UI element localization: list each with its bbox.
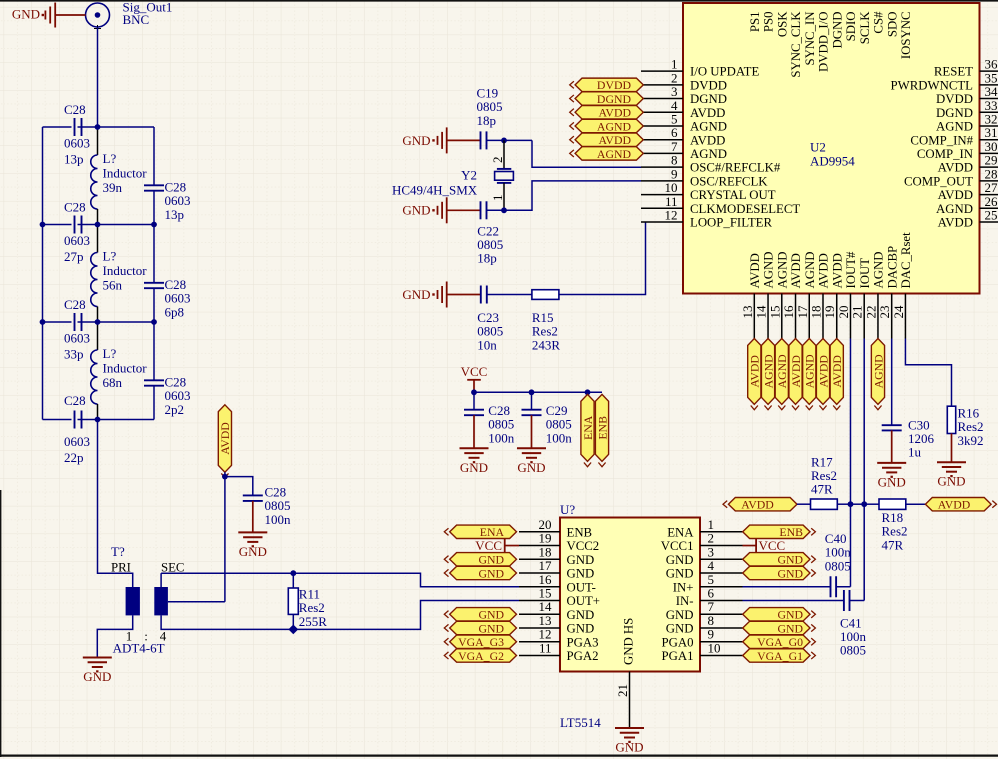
svg-text:OSC#/REFCLK#: OSC#/REFCLK# [690, 161, 781, 175]
svg-text:AGND: AGND [690, 147, 727, 161]
capacitor C28 2p2 shunt [144, 380, 164, 385]
label C41 values [840, 615, 867, 657]
ground GND at C30 [877, 463, 906, 490]
svg-text:AVDD: AVDD [789, 355, 803, 388]
port ENB net [743, 525, 816, 539]
svg-text:GND: GND [615, 740, 643, 755]
svg-text:47R: 47R [811, 482, 833, 497]
svg-text:IN-: IN- [676, 594, 694, 608]
svg-text:LT5514: LT5514 [560, 715, 601, 730]
capacitor C28 27p series [75, 216, 82, 234]
pin 21 GND HS [615, 672, 630, 729]
wire filter to transformer primary [98, 420, 133, 588]
wire C22 to crystal [487, 209, 505, 211]
pin 5 AGND [641, 111, 727, 133]
node VCC junctions [471, 389, 590, 395]
ground GND at C28 VCC [460, 448, 489, 475]
port AVDD net [570, 106, 644, 120]
svg-text:L?: L? [103, 249, 117, 264]
pin 16 AVDD [781, 253, 803, 338]
wire crystal pin1 to OSC/REFCLK [504, 181, 641, 210]
svg-text:3k92: 3k92 [958, 433, 984, 448]
label C28 values [488, 403, 515, 445]
pin 13 GND [519, 613, 594, 636]
svg-text:22: 22 [863, 306, 878, 319]
pin 33 DGND [936, 98, 998, 120]
pin 8 OSC#/REFCLK# [641, 153, 781, 175]
svg-text:CS#: CS# [872, 11, 886, 34]
pin 14 AGND [754, 252, 776, 339]
svg-text:SDIO: SDIO [844, 12, 858, 42]
svg-text:C28: C28 [64, 102, 86, 117]
label C28 values [165, 375, 191, 418]
svg-text:IOSYNC: IOSYNC [899, 12, 913, 60]
port ENB enable [595, 394, 609, 466]
label C28 values [165, 180, 191, 223]
wire OUT- net [293, 573, 519, 587]
svg-text:DGND: DGND [830, 12, 844, 49]
pin 7 AGND [641, 139, 727, 161]
svg-text:DACBP: DACBP [885, 246, 899, 289]
svg-text:39n: 39n [103, 180, 123, 195]
svg-text:100n: 100n [488, 430, 515, 445]
power VCC at pin 19 [475, 538, 519, 553]
pin 2 VCC1 [661, 531, 743, 554]
svg-text:0805: 0805 [825, 558, 851, 573]
ground GND at R16 [937, 462, 966, 489]
capacitor C28 13p series [75, 118, 82, 136]
svg-text:0603: 0603 [165, 291, 191, 306]
port GND net [743, 608, 816, 622]
port AGND net [871, 339, 885, 410]
svg-text:0603: 0603 [64, 136, 90, 151]
node AVDD branch junction [222, 474, 228, 480]
wire C23 to R15 [487, 294, 532, 296]
label C40 values [825, 531, 852, 573]
svg-text:AGND: AGND [936, 120, 973, 134]
svg-text:GND: GND [666, 622, 694, 636]
svg-text:0805: 0805 [840, 643, 866, 658]
port GND net [444, 566, 516, 580]
svg-text:AVDD: AVDD [938, 161, 973, 175]
svg-text:SYNC_CLK: SYNC_CLK [789, 11, 803, 78]
svg-text:20: 20 [836, 306, 851, 319]
pin 19 VCC2 [519, 531, 599, 554]
svg-text:GND: GND [777, 608, 803, 622]
port DVDD net [570, 78, 644, 92]
svg-text:255R: 255R [299, 614, 328, 629]
svg-text:Inductor: Inductor [103, 166, 148, 181]
svg-text:AGND: AGND [803, 252, 817, 289]
node crystal pin2 junction [501, 138, 507, 144]
svg-text:0603: 0603 [64, 331, 90, 346]
port AVDD at R18 [925, 498, 996, 512]
pin 17 GND [519, 558, 594, 581]
svg-text:CRYSTAL OUT: CRYSTAL OUT [690, 188, 776, 202]
pin 7 GND [666, 599, 743, 622]
svg-text:16: 16 [781, 305, 796, 319]
wire IOUT# net [849, 339, 851, 587]
wire IN- to C41 [743, 600, 844, 602]
wire secondary center tap [168, 601, 225, 603]
wire row 4 [43, 419, 155, 421]
wire row 2 [43, 224, 155, 226]
label L? 68n values [103, 346, 148, 390]
svg-text:1: 1 [490, 195, 505, 202]
svg-text:AGND: AGND [775, 354, 789, 389]
wire primary to ground [97, 615, 132, 657]
pin 35 PWRDWNCTL [891, 70, 998, 92]
svg-text:0603: 0603 [64, 434, 90, 449]
svg-text:AGND: AGND [775, 252, 789, 289]
node row4 junction [95, 417, 101, 423]
svg-text:0603: 0603 [165, 388, 191, 403]
inductor L? 68n [91, 322, 98, 420]
ground GND at transformer [83, 658, 112, 685]
wire right rail of filter [153, 127, 155, 420]
pin 23 DACBP [877, 246, 899, 339]
pin 3 GND [666, 544, 743, 567]
svg-text:13: 13 [539, 613, 552, 628]
label C28 values [265, 485, 292, 528]
label R18 values [882, 510, 908, 552]
pin 13 AVDD [740, 253, 762, 338]
svg-text:DVDD: DVDD [597, 78, 632, 92]
port AGND net [570, 147, 644, 161]
svg-text:AGND: AGND [936, 202, 973, 216]
port DGND net [570, 92, 644, 106]
pin 16 OUT- [519, 572, 596, 595]
svg-text:VGA_G3: VGA_G3 [458, 635, 504, 649]
pin 20 ENB [519, 517, 592, 540]
resistor R17 [811, 499, 838, 509]
svg-text:18: 18 [809, 306, 824, 319]
label C29 values [546, 403, 573, 445]
svg-text:Inductor: Inductor [103, 361, 148, 376]
svg-text:VGA_G1: VGA_G1 [757, 649, 803, 663]
port AVDD bias [218, 405, 232, 478]
svg-text:GND: GND [666, 608, 694, 622]
node filter input junction [95, 124, 101, 130]
port ENA enable [581, 394, 595, 466]
svg-text:DAC_Rset: DAC_Rset [899, 232, 913, 289]
svg-text:COMP_OUT: COMP_OUT [904, 174, 973, 188]
svg-text:56n: 56n [103, 278, 123, 293]
svg-text:COMP_IN#: COMP_IN# [910, 133, 973, 147]
svg-text:DVDD: DVDD [690, 78, 727, 92]
wire IOUT net [863, 339, 865, 601]
svg-text:U?: U? [560, 502, 575, 517]
svg-text:AVDD: AVDD [830, 355, 844, 388]
pin 8 GND [666, 613, 743, 636]
svg-text:PGA1: PGA1 [662, 649, 694, 663]
ground GND at C19 [402, 127, 480, 153]
label C23 values [477, 310, 503, 352]
svg-text:DGND: DGND [690, 92, 727, 106]
pin 27 AVDD [938, 180, 998, 202]
capacitor C19 18p [481, 131, 487, 149]
port AGND net [570, 119, 644, 133]
wire cap to ground [252, 501, 254, 533]
capacitor C23 10n [481, 286, 487, 304]
pin 9 OSC/REFCLK [641, 166, 768, 188]
resistor R16 [947, 406, 955, 433]
pin 30 COMP_IN [917, 139, 998, 161]
svg-text:C28: C28 [64, 393, 86, 408]
svg-text:IOUT: IOUT [858, 258, 872, 289]
pin 36 RESET [934, 57, 998, 79]
capacitor C40 100n [831, 576, 837, 597]
wire AVDD to decoupling cap [225, 477, 253, 496]
resistor R18 [879, 499, 906, 509]
svg-text:CLKMODESELECT: CLKMODESELECT [690, 202, 800, 216]
svg-text:GND: GND [239, 544, 267, 559]
svg-text:GND: GND [12, 7, 40, 22]
svg-text:L?: L? [103, 151, 117, 166]
pin 24 DAC_Rset [891, 232, 913, 339]
port VGA_G3 net [444, 635, 516, 649]
ground GND at LT5514 [615, 728, 644, 755]
transformer T? ADT4-6T [111, 544, 184, 656]
svg-text:10n: 10n [477, 337, 497, 352]
svg-text:GND: GND [402, 133, 430, 148]
svg-text:VCC: VCC [475, 538, 502, 553]
capacitor C29 100n at VCC [522, 392, 542, 448]
pin 15 AGND [767, 252, 789, 339]
pin 18 GND [519, 544, 594, 567]
svg-text:68n: 68n [103, 375, 123, 390]
wire secondary bottom to R11 [161, 615, 293, 629]
svg-text:243R: 243R [532, 337, 561, 352]
svg-text:AGND: AGND [761, 354, 775, 389]
svg-text:Inductor: Inductor [103, 263, 148, 278]
pin 21 IOUT [850, 258, 872, 339]
pin 18 AVDD [809, 253, 831, 338]
label R16 values [958, 405, 984, 447]
pin 4 AVDD [641, 98, 725, 120]
ground GND at C28 100n [238, 532, 267, 559]
port AGND net [803, 339, 817, 410]
svg-text:100n: 100n [265, 512, 292, 527]
label L? 39n values [103, 151, 148, 195]
svg-text:AVDD: AVDD [690, 106, 725, 120]
node IOUT# junction [848, 501, 854, 507]
port VGA_G1 net [743, 649, 816, 663]
svg-text:VGA_G2: VGA_G2 [458, 649, 504, 663]
wire R17 to IOUT# [837, 503, 850, 505]
pin 15 OUT+ [519, 586, 600, 609]
pin 12 LOOP_FILTER [641, 208, 772, 230]
pin 29 AVDD [938, 153, 998, 175]
svg-text:18: 18 [539, 544, 552, 559]
svg-text:13p: 13p [165, 207, 185, 222]
pin 14 GND [519, 599, 594, 622]
svg-text:VCC: VCC [759, 538, 786, 553]
svg-text:BNC: BNC [123, 12, 150, 27]
svg-text:VGA_G0: VGA_G0 [757, 635, 803, 649]
port AVDD net [748, 339, 762, 410]
svg-text:AGND: AGND [872, 252, 886, 289]
svg-text:PWRDWNCTL: PWRDWNCTL [891, 78, 974, 92]
svg-text:GND: GND [478, 553, 504, 567]
wire row 1 [43, 126, 155, 128]
svg-text:ENB: ENB [567, 525, 593, 539]
svg-text:2: 2 [490, 157, 505, 164]
wire AVDD flag to R17 [797, 503, 811, 505]
svg-text:AVDD: AVDD [938, 188, 973, 202]
pin 3 DGND [641, 84, 727, 106]
svg-text:15: 15 [767, 306, 782, 319]
svg-text:18p: 18p [477, 251, 497, 266]
svg-text:GND: GND [402, 203, 430, 218]
resistor R15 [532, 290, 559, 300]
crystal Y2 HC49/4H_SMX [392, 140, 513, 210]
op-amp U2 AD9954 body [683, 3, 980, 294]
capacitor C30 1u [882, 425, 902, 463]
port AVDD net [816, 339, 830, 410]
svg-text:ADT4-6T: ADT4-6T [113, 641, 165, 656]
pin 11 CLKMODESELECT [641, 194, 800, 216]
svg-text:13p: 13p [64, 152, 84, 167]
label C28 values [165, 277, 191, 320]
wire IOUT# to IOUT row [850, 503, 864, 505]
svg-text:AVDD: AVDD [598, 106, 631, 120]
svg-text:AVDD: AVDD [598, 133, 631, 147]
wire secondary top to R11 [161, 573, 293, 587]
svg-text:GND: GND [517, 460, 545, 475]
pin 5 IN+ [673, 572, 743, 595]
pin 11 PGA2 [519, 640, 599, 663]
node R11 bottom junction [289, 625, 297, 633]
svg-text:PGA0: PGA0 [662, 635, 694, 649]
op-amp U? LT5514 body [560, 518, 700, 672]
svg-text:COMP_IN: COMP_IN [917, 147, 973, 161]
power VCC at pin 2 [743, 538, 786, 553]
svg-text:16: 16 [539, 572, 553, 587]
svg-text:21: 21 [850, 306, 865, 319]
svg-text:C28: C28 [64, 200, 86, 215]
svg-text:ENA: ENA [581, 415, 595, 440]
svg-text:AVDD: AVDD [741, 498, 774, 512]
pin 26 AGND [936, 194, 998, 216]
svg-text:AVDD: AVDD [830, 253, 844, 288]
svg-text:AGND: AGND [597, 119, 632, 133]
wire IN+ to C40 [743, 586, 831, 588]
inductor L? 56n [91, 225, 98, 323]
pin 12 PGA3 [519, 627, 599, 650]
svg-text:6p8: 6p8 [165, 305, 185, 320]
pin 31 COMP_IN# [910, 125, 998, 147]
capacitor C22 18p [481, 201, 487, 219]
label L? 56n values [103, 249, 148, 293]
label R15 values [532, 310, 561, 352]
svg-text:47R: 47R [882, 537, 904, 552]
svg-text:OSK: OSK [775, 11, 789, 37]
wire C19 to crystal [487, 139, 533, 141]
svg-text:U2: U2 [810, 140, 826, 155]
svg-text:AVDD: AVDD [748, 253, 762, 288]
pin 28 COMP_OUT [904, 166, 998, 188]
svg-text:33p: 33p [64, 347, 84, 362]
svg-text:22p: 22p [64, 450, 84, 465]
port GND net [444, 553, 516, 567]
svg-text:21: 21 [615, 684, 630, 697]
capacitor C41 100n [844, 590, 850, 611]
label C28 values [64, 102, 90, 167]
port AVDD net [789, 339, 803, 410]
svg-text:PS0: PS0 [762, 12, 776, 33]
label U2 designator [810, 140, 855, 169]
node crystal pin1 junction [501, 207, 507, 213]
svg-text:AVDD: AVDD [690, 133, 725, 147]
svg-text:IN+: IN+ [673, 580, 694, 594]
resistor R11 [288, 573, 298, 629]
svg-text:GND: GND [567, 608, 595, 622]
svg-text:AVDD: AVDD [938, 216, 973, 230]
svg-text:13: 13 [740, 306, 755, 319]
power VCC [461, 364, 488, 393]
svg-text:100n: 100n [546, 430, 573, 445]
wire row 3 [43, 321, 155, 323]
svg-text:GND: GND [666, 567, 694, 581]
ground GND at C23 [402, 282, 480, 308]
pin 10 PGA1 [662, 640, 743, 663]
wire AVDD to transformer center tap [224, 472, 226, 602]
port GND net [444, 608, 516, 622]
pin 6 AVDD [641, 125, 725, 147]
svg-text:VCC1: VCC1 [661, 539, 694, 553]
svg-text:GND: GND [478, 566, 504, 580]
connector Sig_Out1 BNC [86, 0, 173, 32]
capacitor C28 22p series [75, 411, 82, 429]
svg-text:L?: L? [103, 346, 117, 361]
port AVDD at R17 [723, 498, 797, 512]
pin 10 CRYSTAL OUT [641, 180, 776, 202]
svg-text:GND: GND [460, 460, 488, 475]
svg-text:SDO: SDO [885, 12, 899, 38]
svg-text:GND: GND [402, 287, 430, 302]
pin 2 DVDD [641, 70, 727, 92]
pin 19 AVDD [822, 253, 844, 338]
pin 1 I/O UPDATE [641, 57, 759, 79]
svg-text:DVDD_I/O: DVDD_I/O [817, 12, 831, 72]
wire C41 to IOUT [850, 600, 865, 602]
wire OUT+ net [293, 601, 519, 630]
svg-text:VCC2: VCC2 [567, 539, 600, 553]
svg-text:OSC/REFCLK: OSC/REFCLK [690, 174, 768, 188]
svg-text:GND HS: GND HS [622, 618, 636, 665]
svg-text:HC49/4H_SMX: HC49/4H_SMX [392, 182, 478, 197]
port AVDD net [570, 133, 644, 147]
label C30 values [908, 417, 935, 459]
port AGND net [761, 339, 775, 410]
svg-text:RESET: RESET [934, 65, 973, 79]
wire DACBP to C30 [891, 339, 893, 426]
svg-text:T?: T? [111, 544, 125, 559]
capacitor C28 100n decoupling [243, 495, 263, 501]
svg-text:GND: GND [567, 622, 595, 636]
label C19 values [477, 86, 503, 128]
port GND net [444, 621, 516, 635]
port AVDD net [830, 339, 844, 410]
svg-text:AVDD: AVDD [817, 253, 831, 288]
svg-text:2p2: 2p2 [165, 402, 185, 417]
svg-text:GND: GND [478, 608, 504, 622]
wire crystal pin2 to OSC#/REFCLK# [532, 140, 641, 167]
pin 9 PGA0 [662, 627, 743, 650]
svg-text:PGA2: PGA2 [567, 649, 599, 663]
port AGND net [775, 339, 789, 410]
